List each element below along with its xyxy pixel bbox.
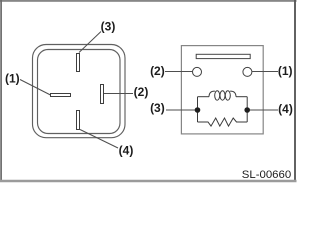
svg-text:(2): (2) [150, 64, 165, 78]
svg-text:(3): (3) [101, 19, 116, 33]
svg-text:(3): (3) [150, 101, 165, 115]
svg-text:(4): (4) [119, 144, 134, 158]
svg-text:(4): (4) [278, 102, 293, 116]
svg-text:SL-00660: SL-00660 [242, 169, 291, 181]
svg-text:(1): (1) [5, 72, 20, 86]
svg-text:(2): (2) [134, 85, 149, 99]
svg-text:(1): (1) [278, 64, 293, 78]
